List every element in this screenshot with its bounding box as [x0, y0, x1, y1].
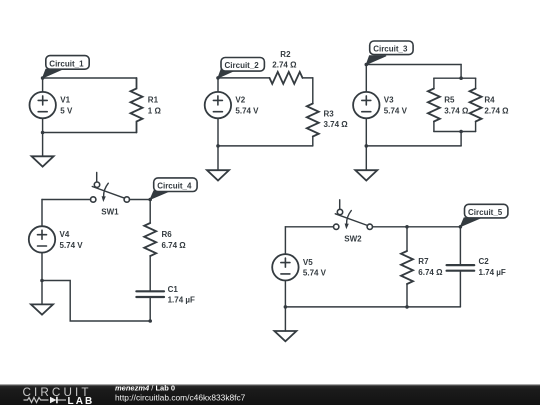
voltage source V1 [30, 92, 56, 118]
voltage source V2 [205, 92, 231, 118]
wire circuit3 top rail [366, 64, 461, 66]
svg-text:1 Ω: 1 Ω [148, 107, 162, 116]
svg-text:R3: R3 [324, 109, 335, 118]
node Circuit_4 callout [150, 178, 197, 199]
wire V2 bottom stub [217, 118, 219, 146]
svg-text:V3: V3 [384, 96, 394, 105]
svg-text:5.74 V: 5.74 V [60, 241, 84, 250]
junction node at V3 top [365, 63, 369, 67]
switch SW1 [91, 173, 130, 203]
wire ground stub circuit2 [217, 146, 219, 170]
svg-text:Circuit_3: Circuit_3 [373, 45, 408, 54]
wire circuit2 top rail right [303, 77, 313, 79]
wire R6 to C1 [149, 256, 151, 291]
resistor R6 [144, 223, 156, 256]
svg-text:1.74 µF: 1.74 µF [168, 296, 195, 305]
wire circuit4 bottom rail [42, 281, 150, 322]
wire parallel bottom stub [460, 132, 462, 146]
ground circuit2 [207, 170, 229, 180]
wire R4 top stub [475, 78, 477, 88]
capacitor C2 [447, 265, 475, 271]
svg-text:5.74 V: 5.74 V [303, 269, 327, 278]
wire circuit5 top rail left [285, 226, 333, 228]
svg-text:http://circuitlab.com/c46kx833: http://circuitlab.com/c46kx833k8fc7 [115, 392, 246, 402]
wire circuit5 bottom rail [285, 306, 460, 308]
svg-text:2.74 Ω: 2.74 Ω [272, 61, 297, 70]
junction node at V2 bottom [216, 144, 220, 148]
junction node parallel top [459, 76, 463, 80]
svg-text:2.74 Ω: 2.74 Ω [484, 107, 509, 116]
ground circuit3 [355, 170, 377, 180]
capacitor C1 [136, 291, 164, 297]
wire C2 bottom stub [459, 271, 461, 307]
wire circuit2 top rail left [218, 77, 270, 79]
junction node at V1 top [41, 76, 45, 80]
resistor R4 [470, 89, 482, 122]
wire V3 bottom stub [365, 118, 367, 146]
wire C2 top stub [459, 227, 461, 265]
ground circuit5 [274, 331, 296, 341]
CircuitLab logo resistor squiggle and diode [24, 397, 67, 404]
wire V4 bottom stub [41, 253, 43, 281]
svg-text:SW2: SW2 [344, 235, 362, 244]
wire R7 top stub [406, 227, 408, 251]
ground circuit4 [31, 304, 53, 314]
svg-text:R7: R7 [418, 257, 429, 266]
junction node C2 top [459, 225, 463, 229]
wire parallel bottom bar [434, 131, 476, 133]
junction node V4 bottom [40, 279, 44, 283]
svg-text:Circuit_1: Circuit_1 [49, 59, 84, 68]
node Circuit_2 callout [218, 58, 264, 78]
svg-text:C1: C1 [168, 285, 179, 294]
wire R7 bottom stub [406, 284, 408, 307]
wire circuit4 top rail right [130, 199, 151, 201]
svg-text:R5: R5 [444, 96, 455, 105]
wire V3 top stub [365, 65, 367, 92]
wire V2 top stub [217, 78, 219, 92]
wire circuit2 bottom rail [218, 145, 313, 147]
svg-text:V5: V5 [303, 258, 313, 267]
wire R5 top stub [433, 78, 435, 88]
junction node parallel bottom [459, 130, 463, 134]
wire ground stub circuit4 [41, 281, 43, 305]
svg-text:1.74 µF: 1.74 µF [479, 268, 506, 277]
svg-text:6.74 Ω: 6.74 Ω [162, 241, 187, 250]
junction node R7 bottom [405, 305, 409, 309]
svg-text:SW1: SW1 [101, 207, 119, 216]
wire C1 bottom stub [149, 297, 151, 321]
junction node V5 bottom [284, 305, 288, 309]
voltage source V3 [353, 92, 379, 118]
node Circuit_5 callout [460, 204, 508, 226]
wire R3 bottom stub [312, 137, 314, 146]
ground circuit1 [32, 156, 54, 166]
wire circuit5 top rail right [373, 226, 461, 228]
svg-text:R1: R1 [148, 96, 159, 105]
svg-text:5 V: 5 V [60, 107, 73, 116]
resistor R3 [307, 104, 319, 137]
resistor R5 [428, 89, 440, 122]
wire circuit3 bottom rail [366, 145, 461, 147]
voltage source V5 [272, 254, 298, 280]
svg-text:V4: V4 [60, 230, 70, 239]
svg-text:R6: R6 [162, 230, 173, 239]
wire circuit4 top rail left [42, 199, 91, 201]
junction node at V2 top [216, 76, 220, 80]
wire ground stub circuit3 [365, 146, 367, 170]
wire R5 bottom stub [433, 122, 435, 132]
junction node circuit4 top [148, 198, 152, 202]
svg-text:LAB: LAB [68, 396, 95, 405]
svg-text:R2: R2 [280, 50, 291, 59]
junction node C1 bottom [148, 319, 152, 323]
wire parallel top bar [434, 77, 476, 79]
wire V5 top stub [284, 227, 286, 254]
svg-text:3.74 Ω: 3.74 Ω [444, 107, 469, 116]
wire circuit1 bottom rail [43, 132, 137, 134]
svg-text:V1: V1 [60, 96, 70, 105]
svg-text:5.74 V: 5.74 V [384, 107, 408, 116]
wire parallel top stub [460, 65, 462, 79]
svg-text:Circuit_5: Circuit_5 [468, 208, 503, 217]
wire V1 bottom stub [42, 118, 44, 132]
node Circuit_3 callout [366, 41, 413, 65]
wire R4 bottom stub [475, 122, 477, 132]
wire R3 top stub [312, 78, 314, 104]
wire R6 top stub [149, 200, 151, 224]
wire circuit1 top rail [43, 77, 137, 79]
junction node at V1 bottom [41, 131, 45, 135]
svg-text:V2: V2 [235, 96, 245, 105]
resistor R1 [131, 78, 143, 133]
wire ground stub circuit1 [42, 133, 44, 157]
svg-text:3.74 Ω: 3.74 Ω [324, 120, 349, 129]
wire V4 top stub [41, 200, 43, 227]
wire V5 bottom stub [284, 281, 286, 307]
node Circuit_1 callout [43, 56, 90, 78]
svg-text:6.74 Ω: 6.74 Ω [418, 268, 443, 277]
wire ground stub circuit5 [284, 307, 286, 331]
junction node at V3 bottom [365, 144, 369, 148]
svg-text:Circuit_4: Circuit_4 [157, 182, 192, 191]
switch SW2 [334, 200, 373, 230]
junction node R7 top [405, 225, 409, 229]
voltage source V4 [29, 226, 55, 252]
wire V1 top stub [42, 78, 44, 92]
svg-text:R4: R4 [484, 96, 495, 105]
resistor R7 [401, 251, 413, 284]
svg-text:Circuit_2: Circuit_2 [225, 61, 260, 70]
svg-text:menezm4 / Lab 0: menezm4 / Lab 0 [115, 384, 175, 393]
svg-text:C2: C2 [479, 257, 490, 266]
svg-text:5.74 V: 5.74 V [235, 107, 259, 116]
resistor R2 [270, 72, 303, 84]
